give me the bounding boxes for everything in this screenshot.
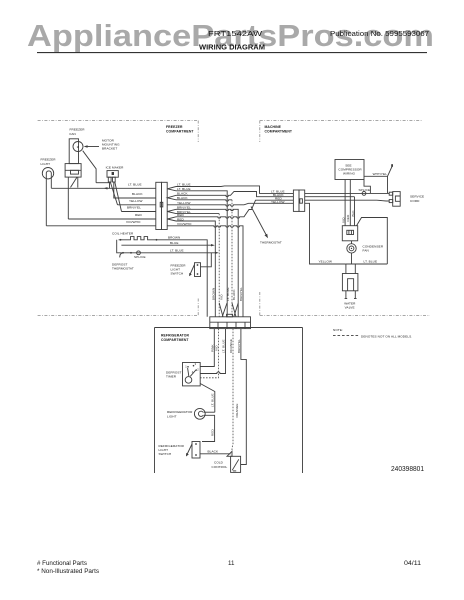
- wire red bus: [68, 218, 156, 220]
- svg-text:WIRING DIAGRAM: WIRING DIAGRAM: [199, 45, 265, 52]
- svg-text:1: 1: [185, 365, 187, 369]
- wire E below bar jog right: [241, 329, 247, 465]
- svg-text:DENOTES NOT ON ALL MODELS.: DENOTES NOT ON ALL MODELS.: [361, 334, 412, 338]
- svg-text:BRN/YEL: BRN/YEL: [239, 287, 243, 301]
- svg-text:RED: RED: [346, 214, 350, 221]
- wire brn/yel bus: [122, 211, 157, 213]
- svg-text:* Non-Illustrated Parts: * Non-Illustrated Parts: [37, 568, 99, 575]
- svg-text:LT. BLUE: LT. BLUE: [226, 287, 230, 301]
- condenser fan motor: [347, 244, 356, 253]
- svg-text:LT. BLUE: LT. BLUE: [177, 183, 191, 187]
- wire motor bus: [96, 182, 109, 184]
- wire freezer bus lt.blue: [51, 187, 156, 189]
- wire service drop: [387, 176, 389, 193]
- wire black branch down dashed: [176, 200, 232, 201]
- wire timer bottom diagonal to light: [200, 384, 215, 413]
- freezer light bulb: [42, 168, 53, 179]
- motor mounting bracket arrow: [86, 146, 100, 148]
- wire red branch down: [176, 221, 215, 317]
- bracket box: [65, 164, 81, 178]
- svg-text:COMPARTMENT: COMPARTMENT: [161, 338, 189, 342]
- machine compartment left border stub bottom: [259, 292, 261, 316]
- wire motor lead diagonal: [83, 151, 96, 183]
- wire compressor lead 2: [349, 180, 351, 226]
- cold control flag: [227, 451, 232, 456]
- crimp V5 red pair: [167, 217, 176, 221]
- freezer light switch body: [195, 263, 201, 277]
- crimp arrow on bus: [104, 187, 108, 189]
- crimp V2 black pair: [167, 195, 176, 200]
- svg-text:WIRING: WIRING: [343, 172, 356, 176]
- svg-text:FAN: FAN: [70, 132, 76, 136]
- splice circle: [137, 251, 141, 255]
- wire yellow to machine: [167, 203, 293, 206]
- wire ice maker pin left lead: [109, 182, 111, 188]
- svg-text:11: 11: [228, 560, 235, 567]
- svg-text:ORANGE: ORANGE: [235, 403, 239, 417]
- ice maker pin right: [113, 177, 116, 182]
- svg-text:RED: RED: [210, 429, 214, 436]
- freezer light lead left wire: [45, 177, 47, 226]
- wire blue: [121, 244, 212, 246]
- bracket foot diagonal: [71, 177, 78, 187]
- water valve leads top: [345, 264, 347, 274]
- svg-text:# Functional Parts: # Functional Parts: [37, 560, 87, 567]
- defrost thermostat: [122, 252, 124, 254]
- svg-text:BROWN: BROWN: [168, 236, 180, 240]
- splice dot machine: [362, 192, 366, 196]
- converge diagonals: [219, 303, 223, 317]
- crimp V1 lt.blue pair: [167, 187, 176, 191]
- wire lt.blue branch down: [176, 191, 227, 317]
- harness arrow: [251, 207, 267, 236]
- svg-text:VIO: VIO: [220, 294, 224, 300]
- wire compressor lead 1: [344, 180, 346, 226]
- svg-text:COMPARTMENT: COMPARTMENT: [166, 129, 194, 133]
- svg-text:2: 2: [197, 368, 199, 372]
- wire yellow bus: [118, 204, 157, 206]
- svg-text:CORD: CORD: [410, 199, 420, 203]
- cold control body: [231, 456, 241, 472]
- water valve body: [342, 274, 358, 291]
- refrigerator light bulb: [194, 408, 205, 419]
- wire wht/yel compressor: [364, 167, 392, 177]
- refrigerator compartment box top wall: [155, 327, 303, 329]
- svg-text:LT. BLUE: LT. BLUE: [170, 248, 184, 252]
- refrigerator compartment box left wall: [154, 328, 156, 474]
- wire ice maker diagonal to yellow: [110, 182, 117, 205]
- svg-text:BRACKET: BRACKET: [102, 147, 117, 151]
- bracket left leg wire: [67, 177, 69, 219]
- svg-text:ICE MAKER: ICE MAKER: [106, 165, 125, 169]
- wire vio/who bus: [46, 225, 156, 227]
- svg-text:LIGHT: LIGHT: [41, 162, 51, 166]
- freezer compartment bottom border: [38, 315, 199, 317]
- wire red to machine: [176, 200, 293, 218]
- svg-text:THERMOSTAT: THERMOSTAT: [112, 267, 134, 271]
- relay overload box: [342, 226, 357, 241]
- svg-text:YELLOW: YELLOW: [129, 199, 143, 203]
- svg-text:CONTROL: CONTROL: [212, 465, 228, 469]
- svg-text:NOTE:: NOTE:: [333, 328, 343, 332]
- svg-text:BLUE: BLUE: [170, 241, 178, 245]
- wire vio/who branch down: [167, 226, 243, 317]
- svg-text:BLACK: BLACK: [232, 289, 236, 300]
- wire switch to bundle: [201, 253, 212, 267]
- svg-text:04/11: 04/11: [404, 560, 422, 567]
- connector plug freezer C1: [156, 182, 162, 229]
- svg-text:BRN/YEL: BRN/YEL: [127, 206, 141, 210]
- svg-text:SWITCH: SWITCH: [171, 272, 184, 276]
- svg-text:YELLOW: YELLOW: [271, 200, 285, 204]
- defrost timer box: [183, 363, 201, 386]
- svg-text:SPLICE: SPLICE: [134, 255, 146, 259]
- wire bus yellow down: [305, 203, 346, 264]
- svg-text:THERMOSTAT: THERMOSTAT: [260, 241, 282, 245]
- svg-text:TIMER: TIMER: [166, 375, 177, 379]
- connector bar: [210, 317, 251, 329]
- svg-text:BRN/YEL: BRN/YEL: [237, 339, 241, 353]
- svg-text:MACHINE: MACHINE: [265, 125, 282, 129]
- svg-text:LT. BLUE: LT. BLUE: [128, 182, 142, 186]
- freezer fan housing: [69, 139, 78, 164]
- svg-text:M: M: [77, 145, 79, 149]
- svg-text:VIO: VIO: [215, 345, 219, 351]
- wire compressor step to bus: [364, 180, 370, 194]
- svg-text:BROWN: BROWN: [212, 288, 216, 300]
- freezer compartment top border: [38, 120, 199, 122]
- svg-text:SPLICE: SPLICE: [359, 188, 371, 192]
- svg-text:COMPARTMENT: COMPARTMENT: [265, 129, 293, 133]
- refrigerator light switch body: [192, 442, 200, 459]
- ice maker box: [107, 171, 118, 178]
- wire bus red to service cord: [305, 199, 390, 202]
- wire lt.blue loop: [357, 218, 388, 265]
- crimp V4 brn/yel pair: [167, 209, 176, 213]
- wire C below bar with hump: [200, 329, 225, 374]
- header rule: [37, 52, 427, 54]
- wire D below bar dashed orange: [232, 329, 233, 452]
- freezer compartment right border stub top: [197, 121, 199, 143]
- compressor box: [335, 160, 364, 180]
- svg-text:LT. BLUE: LT. BLUE: [222, 339, 226, 353]
- svg-text:RED: RED: [135, 213, 142, 217]
- svg-text:BLACK: BLACK: [132, 192, 143, 196]
- wire lt.blue to machine: [176, 186, 293, 194]
- wire fan bottom lead: [351, 253, 353, 264]
- bracket right leg wire: [77, 177, 79, 188]
- svg-text:FREEZER: FREEZER: [166, 125, 183, 129]
- wire ice maker diagonal to brn/yel: [115, 182, 122, 212]
- svg-text:VALVE: VALVE: [345, 306, 355, 310]
- svg-text:ORANGE: ORANGE: [229, 339, 233, 353]
- wire bottom loop horizontal: [346, 263, 387, 265]
- refrigerator compartment box right wall: [302, 328, 304, 474]
- svg-text:VIO: VIO: [342, 217, 346, 223]
- water valve legs: [345, 291, 347, 299]
- wire black to machine: [176, 192, 293, 197]
- wire A below bar: [200, 329, 214, 367]
- wire bus black: [305, 196, 355, 198]
- machine compartment top border: [260, 120, 423, 122]
- machine compartment bottom border: [260, 315, 430, 317]
- svg-text:Publication No. 5995593067: Publication No. 5995593067: [330, 31, 429, 38]
- wire brown with heater element: [119, 237, 208, 317]
- wire lt.blue heater return: [117, 240, 216, 253]
- svg-text:LIGHT: LIGHT: [167, 414, 177, 418]
- service cord plug: [393, 192, 401, 207]
- svg-text:LT. BLUE: LT. BLUE: [211, 393, 215, 407]
- svg-text:COIL HEATER: COIL HEATER: [112, 232, 134, 236]
- svg-text:BLK: BLK: [351, 210, 355, 217]
- wire relay drop black: [354, 197, 356, 226]
- svg-text:240398801: 240398801: [391, 466, 424, 473]
- svg-text:VIO/WHO: VIO/WHO: [126, 220, 141, 224]
- svg-text:WHT/YEL: WHT/YEL: [373, 172, 388, 176]
- wire ice maker pin right lead: [114, 182, 156, 198]
- svg-text:BLACK: BLACK: [177, 196, 188, 200]
- wire brn/yel branch down: [176, 209, 238, 316]
- freezer fan motor: [73, 142, 83, 152]
- svg-text:LT. BLUE: LT. BLUE: [364, 260, 378, 264]
- svg-text:REFRIGERATOR: REFRIGERATOR: [161, 334, 189, 338]
- wire relay to fan link: [351, 241, 353, 244]
- machine compartment left border stub top: [259, 121, 261, 143]
- svg-text:FRT1542AW: FRT1542AW: [208, 31, 263, 38]
- wire B below bar dashed: [200, 329, 218, 378]
- wire light bottom lead: [202, 415, 215, 441]
- wire light top lead: [204, 411, 215, 413]
- svg-text:SWITCH: SWITCH: [159, 452, 172, 456]
- svg-text:YELLOW: YELLOW: [319, 260, 333, 264]
- wire bus lt.blue to service cord: [305, 192, 390, 194]
- connector plug machine C2: [293, 190, 299, 211]
- wire brn/yel branch dashed down: [176, 213, 219, 215]
- svg-text:BLACK: BLACK: [208, 450, 219, 454]
- svg-text:FAN: FAN: [363, 249, 369, 253]
- freezer light lead right wire: [50, 177, 52, 189]
- wire black to cold control: [200, 453, 231, 455]
- ice maker pin left: [108, 177, 111, 182]
- freezer compartment right border stub bottom: [197, 299, 199, 316]
